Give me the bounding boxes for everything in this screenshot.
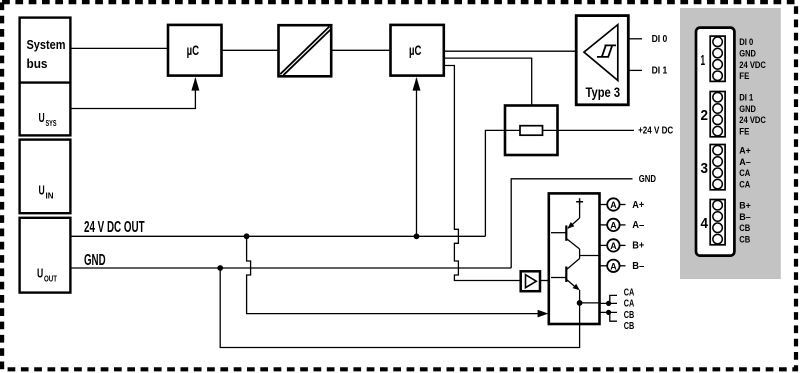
svg-text:+24 V DC: +24 V DC	[638, 126, 673, 137]
svg-text:A+: A+	[632, 200, 644, 211]
svg-text:µC: µC	[409, 43, 422, 58]
svg-text:1: 1	[701, 53, 706, 69]
svg-text:CB: CB	[739, 223, 750, 234]
wire system bus to uC1	[70, 47, 168, 49]
svg-text:OUT: OUT	[44, 274, 58, 284]
node dot emitter	[577, 300, 583, 306]
wire up to uC2 with arrow	[413, 77, 421, 236]
svg-text:DI 1: DI 1	[652, 66, 668, 77]
transistor Q2 (low side)	[551, 256, 580, 325]
terminal CB pair	[600, 310, 635, 332]
connector body	[696, 28, 734, 256]
svg-text:4: 4	[701, 216, 709, 232]
wire plus down	[579, 205, 581, 218]
svg-text:CB: CB	[624, 321, 635, 332]
plus symbol	[576, 198, 583, 205]
ammeter B-	[600, 260, 645, 273]
svg-text:bus: bus	[27, 56, 48, 71]
svg-text:DI 0: DI 0	[739, 37, 753, 48]
svg-text:GND: GND	[639, 174, 656, 185]
wire 24 V DC OUT	[70, 219, 485, 236]
svg-text:CB: CB	[739, 235, 750, 246]
ammeter A+	[600, 198, 645, 211]
svg-text:Type 3: Type 3	[586, 84, 621, 100]
svg-text:DI 1: DI 1	[739, 93, 754, 104]
wire 24V up to fuse	[485, 130, 505, 236]
wire DI 0 stub	[628, 38, 642, 40]
svg-text:B+: B+	[632, 241, 644, 252]
wire GND up and right to GND label	[511, 179, 632, 268]
power block (System bus / U_SYS)	[20, 18, 71, 136]
terminal CA pair	[600, 287, 635, 309]
U_IN block	[20, 140, 71, 214]
svg-text:µC: µC	[187, 43, 200, 58]
node dot GND branch	[217, 265, 223, 271]
svg-text:CA: CA	[739, 180, 750, 191]
wire DI 1 stub	[628, 69, 642, 71]
svg-text:CA: CA	[624, 287, 635, 298]
output driver block	[549, 193, 600, 324]
svg-text:CB: CB	[624, 310, 635, 321]
svg-text:24 VDC: 24 VDC	[739, 115, 766, 126]
svg-text:U: U	[39, 183, 45, 198]
svg-text:B–: B–	[632, 261, 645, 272]
svg-text:DI 0: DI 0	[652, 34, 668, 45]
svg-text:CA: CA	[624, 299, 635, 310]
wire uC2 to Type3 input	[444, 50, 584, 52]
microcontroller uC1	[168, 25, 222, 76]
wire GND from U_OUT	[70, 252, 511, 269]
svg-text:GND: GND	[739, 104, 756, 115]
svg-text:A+: A+	[739, 146, 751, 157]
connector group 4	[701, 200, 752, 246]
microcontroller uC2	[391, 25, 444, 76]
svg-text:A: A	[610, 261, 617, 271]
wire uC1 to isolator	[222, 49, 279, 51]
wire isolator to uC2	[331, 49, 390, 51]
fuse box	[505, 106, 634, 156]
wire 24V branch down to driver with arrow (jog over GND)	[247, 236, 549, 317]
transistor Q1 (high side)	[551, 218, 580, 256]
ammeter A-	[600, 219, 645, 232]
wire dot to edge	[580, 302, 600, 304]
svg-text:System: System	[27, 37, 66, 52]
svg-text:GND: GND	[739, 49, 756, 60]
galvanic isolator	[279, 25, 332, 76]
svg-text:U: U	[37, 266, 43, 281]
U_OUT block	[20, 218, 71, 293]
svg-text:FE: FE	[739, 127, 749, 138]
svg-text:GND: GND	[84, 252, 106, 269]
connector group 1	[701, 36, 767, 82]
wire mid node to edge	[580, 255, 600, 257]
svg-text:B+: B+	[739, 201, 751, 212]
node dot uC2 supply	[414, 233, 420, 239]
wire U_SYS to uC1 with arrow	[70, 77, 199, 109]
svg-text:U: U	[39, 110, 45, 125]
svg-text:FE: FE	[739, 71, 749, 82]
svg-text:24 VDC: 24 VDC	[739, 60, 766, 71]
svg-text:24 V DC OUT: 24 V DC OUT	[84, 219, 145, 236]
digital input Type 3	[576, 16, 628, 105]
svg-text:A: A	[610, 241, 617, 251]
connector panel background	[680, 8, 781, 279]
connector group 2	[701, 92, 767, 138]
wire uC2 to output driver input (with crossing jogs)	[444, 66, 521, 281]
ammeter B+	[600, 239, 645, 252]
svg-text:A: A	[610, 220, 617, 230]
wire GND return to driver bottom	[220, 268, 579, 348]
svg-text:IN: IN	[46, 191, 54, 201]
wire uC2 to fuse top	[444, 58, 532, 105]
svg-text:2: 2	[701, 108, 709, 124]
svg-text:3: 3	[701, 161, 709, 177]
svg-text:A–: A–	[739, 157, 751, 168]
svg-text:B–: B–	[739, 212, 751, 223]
node dot 24V branch	[244, 233, 250, 239]
svg-text:A–: A–	[632, 220, 645, 231]
svg-text:A: A	[610, 200, 617, 210]
gate driver buffer	[521, 271, 549, 291]
svg-text:SYS: SYS	[46, 118, 57, 128]
connector group 3	[701, 145, 752, 191]
svg-text:CA: CA	[739, 168, 750, 179]
